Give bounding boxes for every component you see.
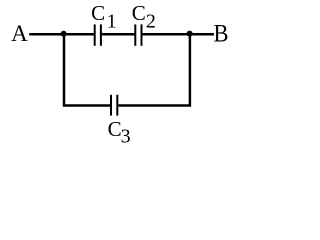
- wire left vertical + bottom left segment: [64, 34, 110, 106]
- wire bottom right segment + right vertical: [118, 34, 190, 106]
- wire right junction to B: [190, 33, 214, 36]
- capacitor C1: [94, 24, 102, 45]
- svg-text:B: B: [214, 20, 229, 47]
- capacitor C3: [110, 95, 118, 116]
- wire C1 to C2: [102, 33, 135, 36]
- junction dot left: [61, 31, 67, 37]
- junction dot right: [187, 31, 193, 37]
- svg-text:A: A: [11, 21, 28, 46]
- wire A to left junction and on to C1: [29, 33, 94, 36]
- wire C2 to right junction: [142, 33, 190, 36]
- capacitor C2: [134, 24, 142, 45]
